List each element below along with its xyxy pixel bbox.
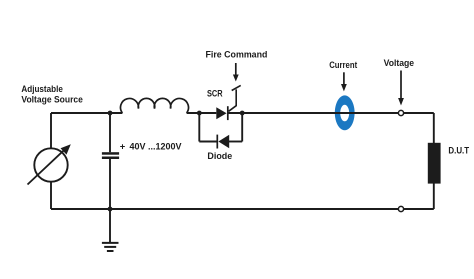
wire: coil to SCR anode xyxy=(187,112,217,114)
DUT body xyxy=(428,143,441,184)
wire: ground stub xyxy=(109,209,111,242)
thyristor SCR gate slash xyxy=(232,85,241,90)
svg-text:Diode: Diode xyxy=(207,150,232,161)
wire: loop bottom left segment xyxy=(199,141,217,143)
inductor L1 coil xyxy=(121,98,189,113)
svg-text:Fire Command: Fire Command xyxy=(206,48,268,59)
terminal: node on bottom rail xyxy=(398,206,403,211)
adjustable voltage source arrow xyxy=(28,144,71,184)
svg-text:D.U.T: D.U.T xyxy=(448,145,469,156)
thyristor SCR cathode bar xyxy=(227,106,229,120)
svg-text:Voltage Source: Voltage Source xyxy=(21,93,83,104)
diode D1 triangle xyxy=(218,135,229,149)
fire command arrow xyxy=(233,63,239,82)
terminal: voltage node on top rail xyxy=(398,110,403,115)
wire: bottom rail xyxy=(51,208,434,210)
node: junction at loop right / top rail xyxy=(240,111,245,116)
voltage arrow xyxy=(398,71,404,106)
ground xyxy=(102,243,119,251)
svg-text:SCR: SCR xyxy=(207,87,223,98)
node: junction at capacitor branch / bottom rail xyxy=(108,207,113,212)
wire: left vertical lower (source bottom to corner) xyxy=(50,182,52,209)
node: junction at loop left / top rail xyxy=(197,111,202,116)
svg-text:Current: Current xyxy=(329,59,357,70)
current probe ring xyxy=(335,95,355,130)
thyristor SCR gate lead xyxy=(229,89,237,111)
node: junction at capacitor branch / top rail xyxy=(108,111,113,116)
wire: capacitor branch upper xyxy=(109,113,111,152)
wire: loop bottom right segment xyxy=(229,141,242,143)
capacitor C1 plates xyxy=(102,152,119,159)
label: Adjustable Voltage Source xyxy=(21,83,83,104)
wire: right vertical upper (corner to DUT) xyxy=(433,113,435,143)
adjustable voltage source G1 circle xyxy=(34,148,67,181)
wire: SCR/diode loop left vertical xyxy=(198,113,200,142)
svg-text:+: + xyxy=(120,140,126,151)
thyristor SCR triangle xyxy=(216,107,226,119)
svg-text:Voltage: Voltage xyxy=(384,57,415,68)
current arrow xyxy=(341,72,347,91)
wire: right vertical lower (DUT to bottom corner) xyxy=(433,184,435,210)
wire: left vertical upper (corner to source top) xyxy=(50,113,52,148)
svg-text:40V ...1200V: 40V ...1200V xyxy=(130,140,183,151)
wire: SCR/diode loop right vertical xyxy=(241,113,243,142)
wire: SCR cathode to right corner xyxy=(228,112,434,114)
wire: top rail left segment xyxy=(51,112,122,114)
diode D1 cathode bar xyxy=(216,135,218,149)
wire: capacitor branch lower xyxy=(109,159,111,209)
